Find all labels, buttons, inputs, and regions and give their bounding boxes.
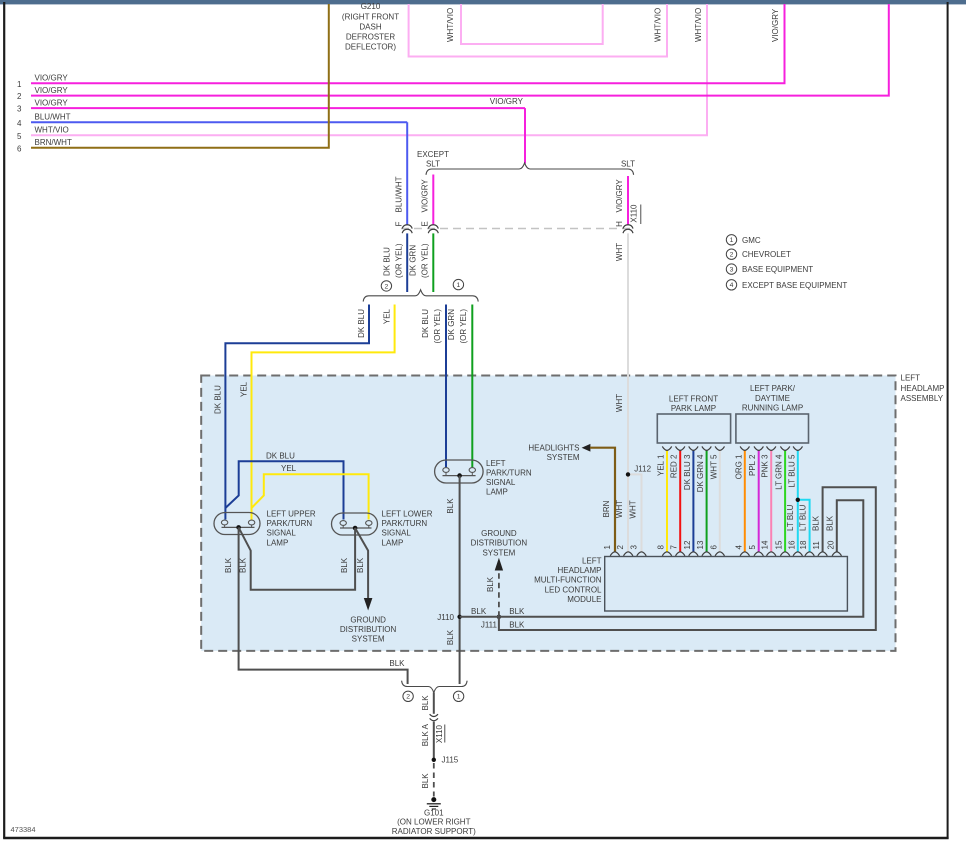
svg-text:20: 20: [826, 540, 835, 549]
svg-text:F: F: [394, 221, 403, 226]
svg-text:WHT: WHT: [615, 394, 624, 412]
svg-text:DEFROSTER: DEFROSTER: [346, 33, 396, 42]
svg-text:PNK 3: PNK 3: [761, 454, 770, 478]
svg-text:SIGNAL: SIGNAL: [486, 478, 516, 487]
svg-text:PARK/TURN: PARK/TURN: [382, 519, 428, 528]
svg-text:X110: X110: [435, 724, 444, 743]
svg-text:LEFT UPPER: LEFT UPPER: [267, 510, 316, 519]
svg-text:DK BLU: DK BLU: [421, 309, 430, 338]
svg-text:1: 1: [603, 545, 612, 550]
svg-text:3: 3: [730, 267, 734, 274]
svg-text:SYSTEM: SYSTEM: [547, 453, 580, 462]
svg-text:J112: J112: [634, 465, 651, 474]
svg-text:BLK: BLK: [446, 629, 455, 645]
svg-text:LT GRN 4: LT GRN 4: [775, 454, 784, 490]
svg-text:BLK A: BLK A: [421, 723, 430, 746]
svg-text:MULTI-FUNCTION: MULTI-FUNCTION: [534, 576, 602, 585]
svg-text:DK GRN: DK GRN: [409, 245, 418, 276]
svg-text:VIO/GRY: VIO/GRY: [421, 179, 430, 213]
svg-text:EXCEPT BASE EQUIPMENT: EXCEPT BASE EQUIPMENT: [742, 281, 847, 290]
svg-text:LT BLU: LT BLU: [799, 504, 808, 531]
svg-text:4: 4: [734, 545, 743, 550]
svg-text:BLK: BLK: [812, 515, 821, 531]
svg-text:HEADLAMP: HEADLAMP: [557, 566, 601, 575]
svg-text:12: 12: [683, 540, 692, 549]
svg-text:2: 2: [385, 283, 389, 290]
svg-text:(RIGHT FRONT: (RIGHT FRONT: [342, 12, 399, 21]
svg-text:6: 6: [17, 144, 22, 153]
svg-text:2: 2: [406, 694, 410, 701]
svg-text:BLK: BLK: [471, 607, 487, 616]
svg-text:H: H: [615, 221, 624, 227]
svg-text:WHT/VIO: WHT/VIO: [446, 8, 455, 42]
svg-text:WHT/VIO: WHT/VIO: [654, 8, 663, 42]
svg-text:1: 1: [730, 237, 734, 244]
svg-text:PARK/TURN: PARK/TURN: [486, 469, 532, 478]
svg-text:X110: X110: [630, 204, 639, 223]
svg-text:14: 14: [761, 540, 770, 549]
svg-text:4: 4: [730, 282, 734, 289]
svg-text:E: E: [421, 221, 430, 226]
svg-text:473384: 473384: [11, 825, 36, 834]
svg-text:DK BLU 3: DK BLU 3: [683, 454, 692, 490]
svg-text:DK GRN: DK GRN: [447, 309, 456, 340]
svg-text:5: 5: [748, 545, 757, 550]
svg-text:BLK: BLK: [826, 515, 835, 531]
svg-text:2: 2: [616, 545, 625, 550]
svg-text:BRN: BRN: [602, 500, 611, 517]
svg-text:BASE EQUIPMENT: BASE EQUIPMENT: [742, 265, 813, 274]
svg-text:WHT/VIO: WHT/VIO: [35, 126, 69, 135]
svg-text:VIO/GRY: VIO/GRY: [615, 179, 624, 213]
svg-text:VIO/GRY: VIO/GRY: [35, 74, 69, 83]
svg-text:BLK: BLK: [356, 557, 365, 573]
svg-text:YEL: YEL: [383, 308, 392, 324]
svg-text:1: 1: [457, 282, 461, 289]
svg-text:EXCEPT: EXCEPT: [417, 150, 449, 159]
svg-text:DASH: DASH: [359, 22, 381, 31]
svg-text:LEFT: LEFT: [486, 459, 506, 468]
svg-text:DAYTIME: DAYTIME: [755, 394, 790, 403]
svg-text:LT BLU: LT BLU: [786, 504, 795, 531]
svg-text:BLK: BLK: [446, 498, 455, 514]
svg-text:HEADLAMP: HEADLAMP: [901, 384, 945, 393]
svg-text:BLK: BLK: [224, 557, 233, 573]
svg-text:(OR YEL): (OR YEL): [420, 243, 429, 278]
svg-text:1: 1: [17, 80, 22, 89]
svg-text:G101: G101: [424, 809, 444, 818]
svg-text:YEL 1: YEL 1: [657, 454, 666, 476]
svg-text:1: 1: [457, 694, 461, 701]
svg-text:DK GRN 4: DK GRN 4: [696, 454, 705, 492]
svg-text:GMC: GMC: [742, 236, 761, 245]
svg-text:BLK: BLK: [509, 621, 525, 630]
svg-text:13: 13: [696, 540, 705, 549]
svg-text:(ON LOWER RIGHT: (ON LOWER RIGHT: [397, 818, 470, 827]
svg-text:LAMP: LAMP: [382, 538, 404, 547]
svg-text:DEFLECTOR): DEFLECTOR): [345, 43, 396, 52]
svg-text:ORG 1: ORG 1: [734, 454, 743, 479]
svg-text:5: 5: [17, 132, 22, 141]
svg-text:18: 18: [799, 540, 808, 549]
svg-text:BLK: BLK: [486, 576, 495, 592]
svg-text:(OR YEL): (OR YEL): [459, 309, 468, 344]
svg-text:DISTRIBUTION: DISTRIBUTION: [340, 625, 397, 634]
svg-text:SLT: SLT: [621, 160, 635, 169]
svg-text:3: 3: [630, 545, 639, 550]
svg-text:4: 4: [17, 119, 22, 128]
svg-text:7: 7: [670, 545, 679, 550]
svg-text:VIO/GRY: VIO/GRY: [35, 99, 69, 108]
svg-text:SIGNAL: SIGNAL: [267, 529, 297, 538]
svg-text:RED 2: RED 2: [670, 454, 679, 478]
svg-text:SLT: SLT: [426, 160, 440, 169]
svg-text:DK BLU: DK BLU: [266, 451, 295, 460]
svg-text:15: 15: [775, 540, 784, 549]
svg-text:BLK: BLK: [421, 695, 430, 711]
svg-text:(OR YEL): (OR YEL): [394, 243, 403, 278]
svg-text:LT BLU 5: LT BLU 5: [787, 454, 796, 488]
svg-text:VIO/GRY: VIO/GRY: [35, 86, 69, 95]
svg-text:YEL: YEL: [240, 381, 249, 397]
svg-text:SYSTEM: SYSTEM: [482, 548, 515, 557]
svg-text:WHT 5: WHT 5: [709, 454, 718, 479]
svg-text:RUNNING LAMP: RUNNING LAMP: [742, 404, 803, 413]
svg-text:2: 2: [730, 252, 734, 259]
svg-text:DK BLU: DK BLU: [383, 247, 392, 276]
svg-text:J110: J110: [437, 613, 454, 622]
svg-text:PARK/TURN: PARK/TURN: [267, 519, 313, 528]
svg-text:WHT: WHT: [615, 243, 624, 261]
svg-text:3: 3: [17, 105, 22, 114]
svg-text:BLK: BLK: [421, 773, 430, 789]
svg-text:ASSEMBLY: ASSEMBLY: [901, 394, 944, 403]
svg-text:J115: J115: [442, 756, 459, 765]
svg-text:BLK: BLK: [340, 557, 349, 573]
svg-text:VIO/GRY: VIO/GRY: [490, 97, 524, 106]
svg-text:BLK: BLK: [509, 607, 525, 616]
svg-text:WHT/VIO: WHT/VIO: [694, 8, 703, 42]
svg-text:11: 11: [812, 541, 821, 550]
svg-text:BLK: BLK: [389, 659, 405, 668]
svg-text:GROUND: GROUND: [481, 529, 517, 538]
svg-text:2: 2: [17, 92, 22, 101]
svg-text:BLK: BLK: [239, 557, 248, 573]
svg-text:J111: J111: [481, 620, 498, 629]
svg-text:LEFT LOWER: LEFT LOWER: [382, 510, 433, 519]
svg-text:8: 8: [657, 545, 666, 550]
svg-text:6: 6: [709, 545, 718, 550]
svg-text:WHT: WHT: [615, 500, 624, 518]
svg-text:16: 16: [787, 540, 796, 549]
svg-text:LED CONTROL: LED CONTROL: [545, 585, 602, 594]
svg-text:SYSTEM: SYSTEM: [352, 635, 385, 644]
svg-text:MODULE: MODULE: [567, 595, 601, 604]
svg-text:WHT: WHT: [629, 500, 638, 518]
svg-text:HEADLIGHTS: HEADLIGHTS: [528, 443, 579, 452]
svg-text:LEFT: LEFT: [901, 374, 921, 383]
svg-text:CHEVROLET: CHEVROLET: [742, 250, 791, 259]
svg-text:RADIATOR SUPPORT): RADIATOR SUPPORT): [392, 827, 476, 836]
svg-text:LEFT: LEFT: [582, 557, 602, 566]
svg-text:PARK LAMP: PARK LAMP: [671, 404, 716, 413]
svg-text:(OR YEL): (OR YEL): [433, 309, 442, 344]
svg-text:LAMP: LAMP: [486, 488, 508, 497]
svg-text:BLU/WHT: BLU/WHT: [35, 113, 71, 122]
svg-text:SIGNAL: SIGNAL: [382, 529, 412, 538]
svg-text:DISTRIBUTION: DISTRIBUTION: [471, 539, 528, 548]
svg-text:LEFT PARK/: LEFT PARK/: [750, 384, 796, 393]
svg-text:GROUND: GROUND: [350, 616, 386, 625]
svg-text:PPL 2: PPL 2: [748, 454, 757, 476]
svg-text:VIO/GRY: VIO/GRY: [771, 8, 780, 42]
svg-text:BLU/WHT: BLU/WHT: [394, 176, 403, 212]
svg-text:LEFT FRONT: LEFT FRONT: [669, 395, 718, 404]
svg-text:DK BLU: DK BLU: [213, 385, 222, 414]
svg-text:DK BLU: DK BLU: [357, 309, 366, 338]
svg-text:LAMP: LAMP: [267, 538, 289, 547]
svg-text:G210: G210: [361, 2, 381, 11]
svg-text:YEL: YEL: [281, 464, 297, 473]
svg-text:BRN/WHT: BRN/WHT: [35, 138, 72, 147]
